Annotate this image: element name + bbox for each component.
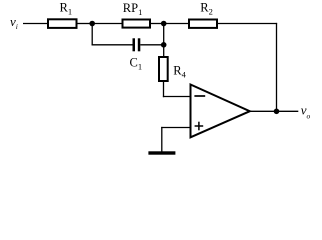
wire node A to RP1 bbox=[92, 23, 122, 25]
op-amp U1 bbox=[191, 85, 250, 138]
wire R2 to top-right corner bbox=[218, 23, 277, 25]
svg-text:R4: R4 bbox=[173, 64, 186, 80]
plus marker (non-inverting input) bbox=[195, 125, 204, 127]
wire R4 down to inverting corner bbox=[163, 82, 165, 97]
svg-text:R1: R1 bbox=[60, 1, 73, 17]
node B (junction dot RP1/R2/R4 branch) bbox=[161, 21, 167, 27]
wire R1 to node A bbox=[78, 23, 93, 25]
wire node A down to capacitor row bbox=[91, 24, 93, 46]
capacitor C1 right plate bbox=[138, 38, 141, 51]
wire capacitor row right (C1 to node C) bbox=[140, 44, 164, 46]
wire feedback vertical (corner down to output node) bbox=[276, 23, 278, 111]
ground bbox=[148, 151, 175, 154]
resistor RP1 (potentiometer) bbox=[123, 20, 151, 28]
svg-text:RP1: RP1 bbox=[123, 1, 143, 17]
resistor R1 bbox=[48, 19, 77, 28]
wire vi to R1 bbox=[23, 23, 48, 25]
wire non-inverting down to ground bbox=[161, 127, 163, 152]
node A (junction dot R1/RP1/C1) bbox=[89, 21, 95, 27]
wire node B to R2 bbox=[164, 23, 189, 25]
wire U1 output to vo bbox=[250, 110, 298, 112]
wire capacitor row left (node A to C1) bbox=[92, 44, 133, 46]
capacitor C1 left plate bbox=[133, 38, 136, 51]
svg-text:R2: R2 bbox=[200, 1, 213, 17]
svg-text:vi: vi bbox=[10, 14, 18, 31]
minus marker (inverting input) bbox=[194, 95, 205, 97]
node C (junction dot C1/R4 branch) bbox=[161, 42, 167, 48]
resistor R4 bbox=[159, 57, 168, 81]
wire to non-inverting input of U1 bbox=[161, 127, 190, 129]
wire node B down through node C to R4 bbox=[163, 24, 165, 57]
svg-text:C1: C1 bbox=[130, 55, 143, 71]
wire to inverting input of U1 bbox=[163, 96, 191, 98]
resistor R2 bbox=[189, 20, 217, 28]
svg-text:vo: vo bbox=[301, 102, 311, 120]
node D (output junction dot) bbox=[274, 109, 280, 115]
wire RP1 to node B bbox=[151, 23, 164, 25]
